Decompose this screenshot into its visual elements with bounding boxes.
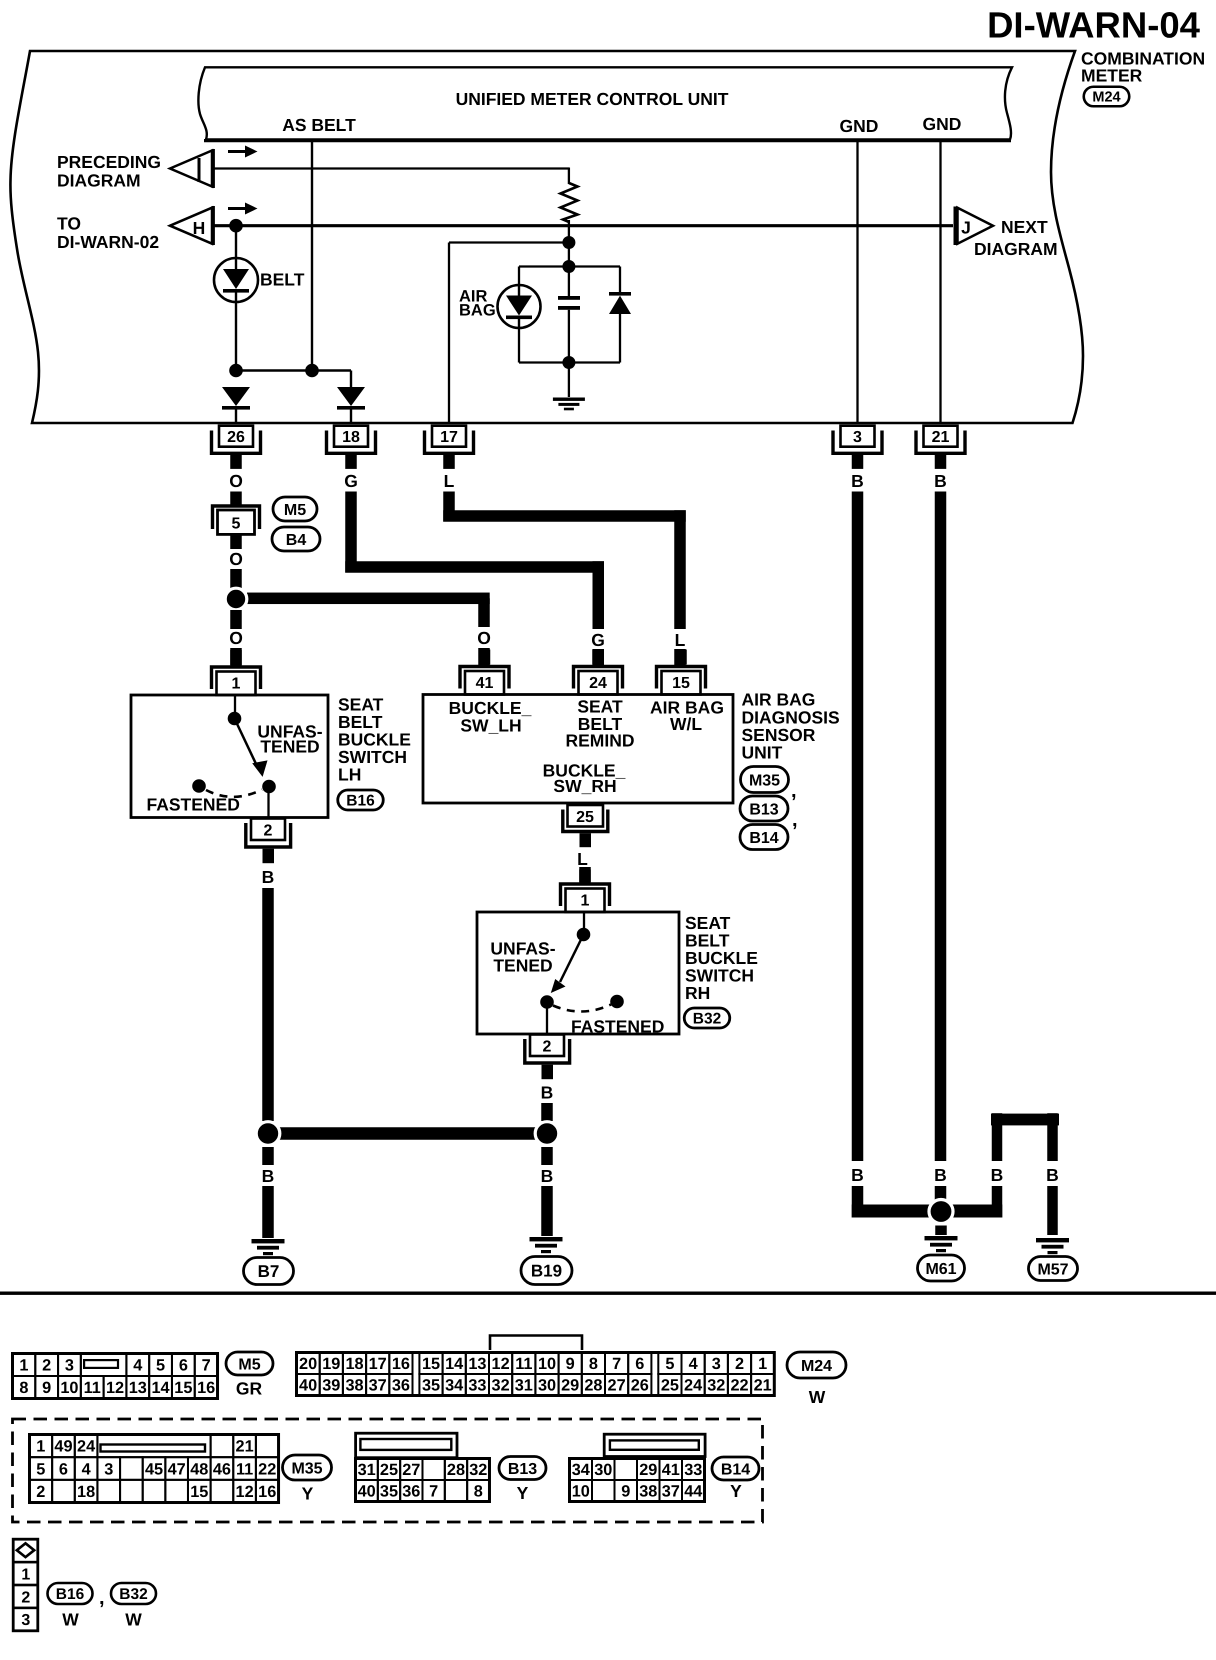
wire B LH below junction bbox=[262, 1147, 274, 1165]
svg-text:1: 1 bbox=[19, 1357, 28, 1375]
svg-text:5: 5 bbox=[156, 1357, 165, 1375]
svg-text:M35: M35 bbox=[749, 772, 780, 789]
svg-text:36: 36 bbox=[392, 1377, 410, 1395]
svg-text:J: J bbox=[961, 218, 971, 238]
wire diode D1 to pin 26 bbox=[235, 409, 237, 424]
svg-text:1: 1 bbox=[36, 1438, 45, 1456]
wire L to RH switch pin 1 bbox=[579, 870, 591, 885]
svg-text:1: 1 bbox=[758, 1355, 767, 1373]
wire L vertical to pin 15 bbox=[674, 510, 686, 629]
node junction on H line at BELT branch bbox=[229, 219, 243, 233]
switch arm RH bbox=[560, 935, 584, 983]
svg-text:47: 47 bbox=[168, 1460, 186, 1478]
wire B LH to ground bbox=[262, 1186, 274, 1238]
svg-text:48: 48 bbox=[190, 1460, 208, 1478]
wire B jumper right leg bbox=[1047, 1113, 1058, 1161]
node junction airbag top y266 bbox=[562, 260, 575, 273]
wire O segment above connector 5 bbox=[230, 492, 242, 506]
wire GND pin21 inside meter bbox=[939, 141, 941, 424]
svg-text:5: 5 bbox=[36, 1460, 45, 1478]
svg-text:29: 29 bbox=[639, 1461, 657, 1479]
svg-text:M24: M24 bbox=[1092, 90, 1120, 106]
wire airbag parallel bottom rail bbox=[519, 361, 620, 363]
svg-text:W: W bbox=[125, 1610, 142, 1630]
wire B pin21 long run bbox=[935, 492, 947, 1162]
connector badge B14 grid bbox=[712, 1457, 759, 1480]
dashed srs box bbox=[13, 1419, 763, 1522]
svg-text:44: 44 bbox=[684, 1483, 702, 1501]
connector badge M24 (combination meter) bbox=[1084, 87, 1130, 107]
svg-text:O: O bbox=[229, 471, 243, 491]
switch contact fastened RH bbox=[610, 995, 624, 1009]
svg-text:5: 5 bbox=[665, 1355, 674, 1373]
seat belt buckle switch LH box bbox=[131, 695, 328, 818]
wire AS BELT column bbox=[311, 141, 313, 371]
svg-text:4: 4 bbox=[689, 1355, 698, 1373]
svg-text:B4: B4 bbox=[286, 532, 307, 549]
svg-text:L: L bbox=[444, 471, 455, 491]
svg-text:4: 4 bbox=[82, 1460, 91, 1478]
svg-text:12: 12 bbox=[106, 1379, 124, 1397]
svg-text:15: 15 bbox=[422, 1355, 440, 1373]
svg-text:TENED: TENED bbox=[260, 737, 319, 757]
svg-text:8: 8 bbox=[474, 1483, 483, 1501]
svg-text:19: 19 bbox=[322, 1355, 340, 1373]
off-page arrow J (next diagram) bbox=[954, 207, 957, 246]
svg-text:G: G bbox=[344, 471, 358, 491]
connector pin 25 sensor unit bbox=[568, 805, 604, 827]
svg-text:25: 25 bbox=[661, 1377, 679, 1395]
svg-text:6: 6 bbox=[179, 1357, 188, 1375]
svg-text:10: 10 bbox=[60, 1379, 78, 1397]
svg-text:22: 22 bbox=[258, 1460, 276, 1478]
node junction diode rail left bbox=[229, 364, 243, 378]
svg-text:BELT: BELT bbox=[260, 270, 305, 290]
svg-text:B13: B13 bbox=[749, 801, 778, 818]
svg-text:32: 32 bbox=[469, 1461, 487, 1479]
svg-text:B32: B32 bbox=[693, 1011, 721, 1028]
bracket above M24 grid bbox=[490, 1336, 582, 1351]
svg-text:13: 13 bbox=[129, 1379, 147, 1397]
resistor (seat belt timer pull-up) bbox=[561, 183, 578, 222]
svg-text:35: 35 bbox=[380, 1483, 398, 1501]
arrow mark above I line bbox=[228, 150, 247, 153]
svg-text:35: 35 bbox=[422, 1377, 440, 1395]
svg-text:22: 22 bbox=[730, 1377, 748, 1395]
connector pin 2 LH switch bbox=[251, 819, 285, 841]
node junction airbag bottom bbox=[562, 356, 575, 369]
svg-text:3: 3 bbox=[104, 1460, 113, 1478]
switch contact upper LH bbox=[228, 712, 242, 726]
svg-text:W/L: W/L bbox=[670, 714, 702, 734]
ground B7 bbox=[252, 1239, 285, 1243]
svg-text:29: 29 bbox=[561, 1377, 579, 1395]
diode D1 to pin 26 bbox=[222, 387, 250, 406]
wire O above pin 41 bbox=[478, 648, 490, 666]
connector grid M35 bbox=[30, 1435, 53, 1458]
svg-text:15: 15 bbox=[190, 1483, 208, 1501]
svg-text:B: B bbox=[934, 1165, 947, 1185]
svg-text:16: 16 bbox=[258, 1483, 276, 1501]
svg-text:14: 14 bbox=[445, 1355, 463, 1373]
connector badge M35 at sensor unit bbox=[741, 767, 789, 793]
node junction B RH bbox=[535, 1122, 559, 1146]
svg-text:45: 45 bbox=[145, 1460, 163, 1478]
svg-text:9: 9 bbox=[566, 1355, 575, 1373]
svg-text:18: 18 bbox=[77, 1483, 95, 1501]
svg-text:17: 17 bbox=[369, 1355, 387, 1373]
wire B RH to ground bbox=[541, 1186, 553, 1236]
connector pin 2 RH switch bbox=[530, 1035, 564, 1057]
svg-text:12: 12 bbox=[236, 1483, 254, 1501]
svg-text:18: 18 bbox=[345, 1355, 363, 1373]
wire B bottom bar bbox=[852, 1205, 1003, 1218]
wire B jumper right leg to ground bbox=[1047, 1186, 1058, 1235]
svg-text:O: O bbox=[229, 628, 243, 648]
svg-text:BAG: BAG bbox=[459, 302, 496, 320]
svg-text:AIR BAG: AIR BAG bbox=[742, 690, 816, 710]
wire B LH down to junction bbox=[262, 888, 274, 1121]
svg-text:30: 30 bbox=[594, 1461, 612, 1479]
wire airbag parallel top rail bbox=[519, 265, 620, 267]
wire G above pin 24 bbox=[593, 649, 605, 666]
svg-text:24: 24 bbox=[77, 1438, 95, 1456]
svg-text:31: 31 bbox=[358, 1461, 376, 1479]
svg-text:1: 1 bbox=[21, 1566, 30, 1583]
wire from node to pin 17 column bbox=[449, 241, 569, 243]
svg-text:M35: M35 bbox=[291, 1460, 322, 1477]
connector strip B16/B32 bbox=[13, 1539, 38, 1562]
wire diode D2 to pin 18 bbox=[350, 409, 352, 424]
svg-text:11: 11 bbox=[236, 1460, 253, 1478]
ground B19 bbox=[530, 1237, 563, 1241]
ground badge B7 bbox=[244, 1258, 294, 1285]
wire node to airbag parallel top bbox=[568, 243, 570, 267]
svg-text:9: 9 bbox=[42, 1379, 51, 1397]
svg-text:46: 46 bbox=[213, 1460, 231, 1478]
wire B RH down to junction bbox=[541, 1103, 553, 1121]
svg-text:37: 37 bbox=[662, 1483, 680, 1501]
svg-text:,: , bbox=[791, 780, 797, 802]
svg-text:41: 41 bbox=[662, 1461, 680, 1479]
wire B pin3 long run bbox=[852, 492, 864, 1162]
svg-text:30: 30 bbox=[538, 1377, 556, 1395]
svg-text:17: 17 bbox=[440, 429, 458, 446]
wire horizontal diode rail bbox=[236, 369, 351, 371]
svg-text:9: 9 bbox=[621, 1483, 630, 1501]
svg-text:G: G bbox=[591, 630, 605, 650]
svg-text:REMIND: REMIND bbox=[565, 731, 634, 751]
svg-text:34: 34 bbox=[572, 1461, 590, 1479]
node junction M61 bbox=[929, 1200, 953, 1224]
connector pin 21 bbox=[924, 426, 958, 447]
svg-text:B: B bbox=[1046, 1165, 1059, 1185]
connector badge B4 bbox=[272, 527, 320, 551]
svg-text:26: 26 bbox=[631, 1377, 649, 1395]
svg-text:7: 7 bbox=[612, 1355, 621, 1373]
wire resistor bottom through H line to node bbox=[568, 220, 570, 243]
connector pin 15 sensor unit bbox=[657, 667, 706, 689]
connector badge B13 at sensor unit bbox=[740, 796, 788, 821]
svg-text:11: 11 bbox=[515, 1355, 532, 1373]
svg-text:7: 7 bbox=[429, 1483, 438, 1501]
node junction B LH bbox=[256, 1122, 280, 1146]
svg-text:B: B bbox=[262, 1166, 275, 1186]
wire B jumper left leg to bar bbox=[992, 1186, 1003, 1218]
node junction diode rail at AS BELT bbox=[305, 364, 319, 378]
wire B pin21 to junction bbox=[935, 1186, 947, 1212]
ground M57 bbox=[1036, 1238, 1069, 1242]
svg-text:41: 41 bbox=[476, 675, 494, 692]
connector grid B13 bbox=[356, 1459, 378, 1481]
svg-text:B16: B16 bbox=[346, 793, 375, 810]
svg-text:40: 40 bbox=[299, 1377, 317, 1395]
svg-text:M24: M24 bbox=[801, 1358, 832, 1375]
svg-text:40: 40 bbox=[358, 1483, 376, 1501]
wire B jumper top bar bbox=[991, 1114, 1059, 1126]
wire B pin3 to bottom bar bbox=[852, 1186, 864, 1218]
connector grid M24 bbox=[297, 1353, 320, 1375]
wire O segment below connector 5 bbox=[230, 534, 242, 549]
switch arm LH bbox=[235, 719, 258, 767]
wire H line from triangle to J bbox=[214, 224, 953, 227]
svg-text:37: 37 bbox=[369, 1377, 387, 1395]
svg-text:TO: TO bbox=[57, 214, 81, 234]
connector badge B14 at sensor unit bbox=[740, 825, 788, 850]
svg-text:3: 3 bbox=[65, 1357, 74, 1375]
wire O branch to pin 41 horizontal bbox=[247, 593, 490, 605]
svg-text:O: O bbox=[229, 549, 243, 569]
svg-text:B13: B13 bbox=[508, 1461, 537, 1478]
svg-text:B: B bbox=[851, 1165, 864, 1185]
ground M61 bbox=[925, 1236, 958, 1240]
connector pin 17 bbox=[432, 426, 466, 447]
svg-text:GND: GND bbox=[923, 114, 962, 134]
wire B jumper left leg bbox=[992, 1113, 1003, 1161]
svg-text:3: 3 bbox=[712, 1355, 721, 1373]
svg-text:DIAGRAM: DIAGRAM bbox=[974, 239, 1058, 259]
svg-text:W: W bbox=[809, 1387, 826, 1407]
connector pin 1 RH switch bbox=[561, 884, 610, 906]
svg-text:7: 7 bbox=[202, 1357, 211, 1375]
indicator lamp BELT bbox=[214, 258, 258, 302]
svg-text:LH: LH bbox=[338, 765, 361, 785]
svg-text:2: 2 bbox=[21, 1589, 30, 1606]
svg-text:H: H bbox=[193, 218, 206, 238]
svg-text:49: 49 bbox=[54, 1438, 72, 1456]
off-page arrow H (to DI-WARN-02) bbox=[170, 208, 212, 244]
svg-text:12: 12 bbox=[492, 1355, 510, 1373]
connector badge M24 grid bbox=[787, 1352, 846, 1378]
svg-text:8: 8 bbox=[19, 1379, 28, 1397]
wire G horizontal to pin 24 bbox=[345, 561, 604, 573]
connector pin 3 bbox=[841, 426, 875, 447]
svg-text:2: 2 bbox=[264, 823, 273, 840]
svg-text:L: L bbox=[675, 630, 686, 650]
svg-text:SW_LH: SW_LH bbox=[460, 716, 521, 736]
connector badge M5 bbox=[273, 497, 317, 521]
svg-text:2: 2 bbox=[36, 1483, 45, 1501]
combination meter box outline bbox=[10, 51, 1083, 423]
svg-text:B7: B7 bbox=[258, 1262, 280, 1281]
off-page arrow I (preceding diagram) bbox=[170, 151, 212, 187]
indicator lamp AIR BAG W/L bbox=[498, 285, 541, 328]
svg-text:5: 5 bbox=[232, 516, 241, 533]
svg-text:M5: M5 bbox=[284, 502, 306, 519]
connector pin 1 LH switch bbox=[212, 667, 261, 689]
svg-text:1: 1 bbox=[581, 893, 590, 910]
svg-text:B14: B14 bbox=[721, 1461, 750, 1478]
svg-text:B19: B19 bbox=[531, 1262, 562, 1281]
switch contact fastened LH bbox=[192, 779, 206, 793]
connector badge B32 bottom bbox=[111, 1583, 156, 1604]
svg-text:16: 16 bbox=[392, 1355, 410, 1373]
connector pin 18 bbox=[334, 426, 368, 447]
capacitor in airbag circuit bbox=[558, 296, 580, 300]
wire L above pin 15 bbox=[674, 649, 686, 666]
svg-text:DI-WARN-04: DI-WARN-04 bbox=[987, 5, 1201, 46]
connector grid M5 bbox=[13, 1354, 36, 1377]
svg-text:8: 8 bbox=[589, 1355, 598, 1373]
arrow mark above H line bbox=[228, 207, 247, 210]
wire O segment below junction bbox=[230, 610, 242, 629]
switch contact lower LH bbox=[262, 780, 276, 794]
svg-text:3: 3 bbox=[853, 429, 862, 446]
svg-text:B16: B16 bbox=[56, 1586, 85, 1603]
svg-text:18: 18 bbox=[342, 429, 360, 446]
svg-text:NEXT: NEXT bbox=[1001, 217, 1048, 237]
air bag diagnosis sensor unit box bbox=[423, 695, 733, 804]
connector badge B16 bottom bbox=[48, 1583, 93, 1604]
svg-text:16: 16 bbox=[197, 1379, 215, 1397]
ground symbol inside meter bbox=[553, 398, 585, 401]
svg-text:B: B bbox=[934, 471, 947, 491]
svg-text:13: 13 bbox=[468, 1355, 486, 1373]
svg-text:28: 28 bbox=[584, 1377, 602, 1395]
wire diode rail to right diode bbox=[350, 371, 352, 388]
connector pin 41 sensor unit bbox=[460, 667, 509, 689]
connector pin 26 bbox=[219, 426, 253, 447]
svg-text:24: 24 bbox=[589, 675, 607, 692]
wire M61 junction to ground bbox=[935, 1226, 947, 1236]
svg-text:FASTENED: FASTENED bbox=[147, 795, 240, 815]
wire capacitor branch bottom bbox=[568, 310, 570, 363]
node junction at H/resistor column y242 bbox=[562, 236, 575, 249]
svg-text:27: 27 bbox=[402, 1461, 420, 1479]
svg-text:32: 32 bbox=[707, 1377, 725, 1395]
wire G segment below pin 18 bbox=[345, 492, 357, 573]
svg-text:AS BELT: AS BELT bbox=[282, 115, 356, 135]
svg-text:,: , bbox=[99, 1587, 105, 1609]
svg-text:21: 21 bbox=[932, 429, 950, 446]
switch fastened dashed arc LH bbox=[206, 790, 262, 797]
wire O segment above pin 1 LH bbox=[230, 648, 242, 666]
svg-text:1: 1 bbox=[232, 676, 241, 693]
svg-text:25: 25 bbox=[576, 809, 594, 826]
svg-text:M5: M5 bbox=[238, 1356, 260, 1373]
switch contact lower RH bbox=[540, 995, 554, 1009]
wire BELT lamp to diode node bbox=[235, 302, 237, 371]
svg-text:O: O bbox=[477, 628, 491, 648]
seat belt buckle switch RH box bbox=[477, 912, 679, 1034]
svg-text:6: 6 bbox=[635, 1355, 644, 1373]
node junction O wire bbox=[225, 588, 247, 610]
wire zener branch bottom bbox=[619, 314, 621, 363]
svg-text:2: 2 bbox=[735, 1355, 744, 1373]
svg-text:B: B bbox=[262, 867, 275, 887]
svg-text:B: B bbox=[541, 1166, 554, 1186]
ground badge B19 bbox=[521, 1257, 572, 1285]
wire L segment below pin 17 bbox=[443, 492, 455, 522]
wire pin1 to switch contact LH bbox=[234, 695, 236, 718]
wire B horizontal joining LH and RH bbox=[262, 1127, 553, 1140]
wire airbag bottom to ground bbox=[568, 363, 570, 398]
diode (zener) in airbag circuit bbox=[609, 292, 631, 296]
svg-text:11: 11 bbox=[84, 1379, 101, 1397]
svg-text:32: 32 bbox=[492, 1377, 510, 1395]
svg-text:GND: GND bbox=[840, 116, 879, 136]
svg-text:3: 3 bbox=[21, 1612, 30, 1629]
svg-text:B32: B32 bbox=[119, 1586, 147, 1603]
wire airbag LED branch top bbox=[518, 267, 520, 286]
svg-text:38: 38 bbox=[345, 1377, 363, 1395]
svg-text:B: B bbox=[851, 471, 864, 491]
connector badge M35 grid bbox=[283, 1455, 332, 1480]
wire GND pin3 inside meter bbox=[856, 141, 858, 424]
svg-text:39: 39 bbox=[322, 1377, 340, 1395]
svg-text:Y: Y bbox=[302, 1484, 314, 1504]
svg-text:10: 10 bbox=[572, 1483, 590, 1501]
svg-text:31: 31 bbox=[515, 1377, 533, 1395]
svg-text:TENED: TENED bbox=[493, 956, 552, 976]
wire zener branch top bbox=[619, 267, 621, 293]
ground badge M57 bbox=[1029, 1257, 1078, 1281]
svg-text:B14: B14 bbox=[749, 830, 778, 847]
svg-text:GR: GR bbox=[236, 1379, 263, 1399]
svg-text:33: 33 bbox=[684, 1461, 702, 1479]
svg-text:B: B bbox=[541, 1083, 554, 1103]
svg-text:M61: M61 bbox=[925, 1261, 956, 1278]
connector badge B16 at LH switch bbox=[338, 790, 384, 810]
svg-text:FASTENED: FASTENED bbox=[571, 1017, 664, 1037]
connector badge M5 grid bbox=[226, 1352, 273, 1375]
svg-text:UNIT: UNIT bbox=[742, 743, 783, 763]
svg-text:33: 33 bbox=[468, 1377, 486, 1395]
svg-text:14: 14 bbox=[152, 1379, 170, 1397]
svg-text:27: 27 bbox=[608, 1377, 626, 1395]
svg-text:METER: METER bbox=[1081, 66, 1143, 86]
svg-text:20: 20 bbox=[299, 1355, 317, 1373]
svg-text:M57: M57 bbox=[1037, 1261, 1068, 1278]
svg-text:SW_RH: SW_RH bbox=[553, 776, 616, 796]
svg-text:Y: Y bbox=[730, 1481, 742, 1501]
svg-text:6: 6 bbox=[59, 1460, 68, 1478]
switch contact upper RH bbox=[577, 928, 591, 942]
svg-text:28: 28 bbox=[447, 1461, 465, 1479]
svg-text:25: 25 bbox=[380, 1461, 398, 1479]
svg-text:W: W bbox=[62, 1610, 79, 1630]
connector pin 24 sensor unit bbox=[574, 667, 623, 689]
wire G vertical to pin 24 bbox=[593, 561, 605, 629]
wire pin1 to switch contact RH bbox=[583, 912, 585, 934]
svg-text:2: 2 bbox=[543, 1039, 552, 1056]
svg-text:21: 21 bbox=[754, 1377, 772, 1395]
connector badge B32 at RH switch bbox=[684, 1008, 730, 1028]
wire BELT lamp branch from H line bbox=[235, 226, 237, 258]
wire contact to pin 2 RH bbox=[546, 1009, 548, 1035]
unified meter control unit banner bbox=[198, 67, 1012, 139]
wire contact to pin 2 LH bbox=[267, 793, 269, 818]
